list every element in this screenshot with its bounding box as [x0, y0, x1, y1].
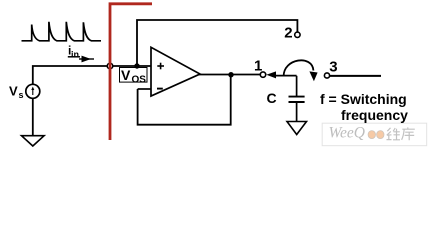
wire junction to node 2: [137, 20, 297, 66]
label i_in: [68, 44, 80, 60]
wire Vs to input node: [33, 66, 108, 85]
svg-text:in: in: [71, 50, 79, 60]
arrow i_in direction: [79, 56, 94, 63]
node 1 terminal: [260, 72, 265, 77]
svg-text:1: 1: [254, 58, 262, 75]
svg-text:f = Switching: f = Switching: [320, 91, 407, 107]
svg-text:3: 3: [329, 58, 337, 75]
switch throw arc arrow: [284, 60, 318, 81]
svg-text:V: V: [121, 67, 131, 83]
ground right: [287, 122, 307, 135]
svg-text:C: C: [267, 90, 277, 106]
wire Vs to ground: [32, 98, 34, 136]
wire output to node 1: [199, 74, 260, 76]
watermark WeeQoo text: [329, 125, 365, 142]
capacitor C1: [289, 76, 305, 122]
chopper boundary red line: [110, 4, 152, 140]
watermark hanzi wei: [387, 128, 401, 140]
node 2 terminal: [295, 32, 300, 37]
svg-text:OS: OS: [132, 75, 147, 86]
voltage source Vs: [26, 84, 40, 98]
junction dot at +input: [134, 63, 139, 68]
svg-text:s: s: [19, 90, 24, 100]
watermark hanzi ku: [402, 127, 415, 140]
label VOS: [120, 67, 148, 86]
watermark WeeQoo box: [322, 123, 427, 146]
label C: [267, 90, 277, 106]
label 2: [284, 24, 292, 41]
junction dot at output: [228, 72, 233, 77]
wire node to op-amp noninverting input: [113, 65, 151, 67]
label f = Switching frequency: [320, 91, 408, 123]
op-amp U1: [151, 47, 200, 96]
svg-text:frequency: frequency: [341, 107, 408, 123]
label Vs: [9, 84, 24, 101]
svg-text:V: V: [9, 84, 18, 99]
svg-text:WeeQ: WeeQ: [329, 125, 365, 142]
watermark oo dots: [368, 131, 384, 139]
input current spike waveform: [22, 22, 102, 41]
switch wiper arrow: [266, 71, 296, 78]
svg-text:2: 2: [284, 24, 292, 41]
ground left: [22, 136, 45, 146]
label 1: [254, 58, 262, 75]
wire inverting input: [138, 88, 151, 90]
node on chopper boundary: [107, 63, 113, 69]
wire stub right of node 3: [330, 75, 381, 77]
node 3 terminal: [324, 73, 329, 78]
feedback wire: [138, 77, 231, 125]
label 3: [329, 58, 337, 75]
